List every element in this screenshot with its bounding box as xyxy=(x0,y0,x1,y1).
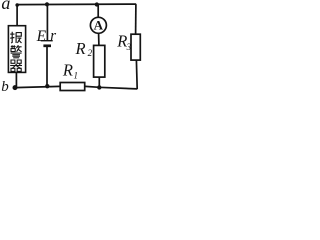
wire bottom rail b to R1 xyxy=(15,86,60,87)
alarm char jing xyxy=(11,45,22,58)
svg-text:r: r xyxy=(50,28,56,44)
wire left branch a to alarm box xyxy=(16,5,18,26)
ammeter A circle xyxy=(90,17,106,33)
alarm char bao xyxy=(10,32,21,43)
svg-text:b: b xyxy=(1,79,9,95)
svg-text:2: 2 xyxy=(88,48,93,58)
junction dot battery bottom xyxy=(45,84,49,88)
svg-text:R: R xyxy=(62,61,73,80)
svg-text:a: a xyxy=(1,0,10,13)
node a junction dot xyxy=(15,3,19,7)
wire battery branch upper xyxy=(46,4,48,40)
wire right branch top xyxy=(135,4,137,34)
junction dot ammeter top xyxy=(95,2,99,6)
svg-text:1: 1 xyxy=(74,70,79,80)
resistor R3 box xyxy=(131,34,140,60)
svg-text:E: E xyxy=(36,28,47,45)
battery cell E r long plate xyxy=(41,40,53,42)
alarm box (bao jing qi) xyxy=(8,26,25,73)
wire alarm box to b xyxy=(15,72,17,86)
wire right branch bottom xyxy=(135,60,138,89)
svg-text:A: A xyxy=(94,18,104,33)
wire top rail a to top-right corner xyxy=(16,3,136,6)
wire ammeter branch upper xyxy=(97,5,99,18)
resistor R2 box xyxy=(94,45,105,77)
wire bottom rail R1 to right corner xyxy=(85,86,137,89)
junction dot battery top xyxy=(45,2,49,6)
resistor R1 box xyxy=(60,83,84,91)
battery cell short thick plate xyxy=(43,44,51,47)
svg-text:3: 3 xyxy=(126,42,132,52)
wire R2 to bottom rail xyxy=(98,77,100,88)
wire battery branch lower xyxy=(46,47,48,87)
wire ammeter to R2 xyxy=(98,34,100,46)
svg-text:R: R xyxy=(75,39,86,58)
node b junction dot xyxy=(13,85,18,90)
junction dot R2 bottom xyxy=(97,85,101,89)
alarm char qi xyxy=(10,60,22,71)
